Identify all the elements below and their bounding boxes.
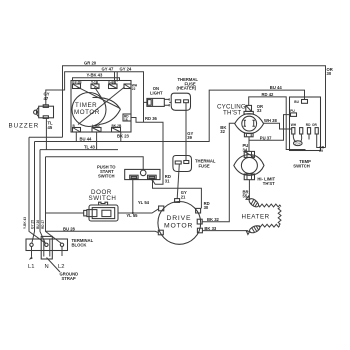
label GY 47	[102, 66, 114, 71]
label Y-BK 43	[87, 73, 103, 78]
label BU 44	[80, 137, 93, 142]
door switch S1	[84, 202, 118, 221]
drive motor M1	[158, 202, 201, 245]
svg-text:RD: RD	[306, 123, 311, 127]
timer terminal T3 top	[108, 81, 117, 89]
wire left riser W3	[40, 150, 45, 244]
svg-text:47: 47	[44, 96, 49, 101]
wire left riser W4	[46, 157, 62, 244]
motor terminal upper-left	[159, 206, 164, 211]
svg-text:BK-2B: BK-2B	[112, 124, 122, 128]
label GY 25 (rotated)	[31, 220, 35, 229]
wire PU 37	[249, 115, 291, 141]
label BU 26 (rotated)	[36, 220, 40, 229]
svg-text:L-BB: L-BB	[92, 124, 100, 128]
svg-text:21: 21	[181, 194, 186, 199]
svg-text:30: 30	[204, 205, 209, 210]
label BK 32	[207, 217, 220, 222]
svg-text:OR: OR	[312, 123, 317, 127]
svg-text:SWITCH: SWITCH	[293, 163, 310, 168]
svg-text:18: 18	[124, 118, 128, 122]
svg-text:30: 30	[327, 71, 332, 76]
label GY 21	[181, 190, 187, 199]
thermal fuse F1 (heater)	[171, 93, 190, 110]
wire temp contact 4 to OR 30	[317, 134, 326, 148]
svg-text:BU 26: BU 26	[36, 220, 40, 229]
label BU 44 (right)	[270, 85, 283, 90]
svg-text:GY 24: GY 24	[120, 66, 132, 71]
svg-text:GR 20: GR 20	[84, 61, 97, 66]
wire left riser W2	[32, 142, 35, 244]
motor terminal top	[175, 199, 180, 203]
label THERMAL FUSE	[195, 159, 216, 169]
svg-text:39: 39	[187, 135, 192, 140]
label PU 37	[260, 136, 272, 141]
temp switch BU terminal	[294, 100, 307, 105]
svg-text:BU 28: BU 28	[63, 227, 76, 232]
motor terminal lower-left	[158, 230, 163, 235]
push to start switch S2	[125, 169, 160, 179]
thermal fuse F2	[173, 156, 192, 172]
svg-text:Y-1B: Y-1B	[91, 81, 99, 85]
temp switch LOW element	[293, 134, 302, 146]
wire BU 44 (timer bottom to temp switch BU)	[35, 90, 305, 150]
timer terminal B1 bottom	[73, 124, 81, 132]
wire TL 43	[40, 149, 118, 151]
wire lamp branch	[143, 102, 145, 122]
wire GY 47 / GY 24 (second top horizontal, to on-light)	[46, 72, 147, 105]
svg-text:BK 33: BK 33	[204, 226, 217, 231]
wire Y-BK 43	[73, 78, 120, 81]
connector heater bottom	[246, 224, 261, 235]
temp switch contact labels	[291, 123, 318, 127]
label WH 38	[264, 118, 277, 123]
svg-text:SWITCH: SWITCH	[89, 195, 117, 202]
wire push right hook	[151, 177, 163, 185]
motor terminal right	[197, 219, 202, 224]
wire GY 21 (fuse to motor top)	[177, 164, 179, 199]
label TL 43	[84, 144, 96, 149]
svg-text:TIMER: TIMER	[75, 102, 97, 109]
label ON LIGHT	[150, 86, 163, 95]
svg-text:RD 27: RD 27	[41, 220, 45, 229]
label WH 22	[132, 84, 138, 92]
wire RD 42	[249, 97, 305, 151]
svg-text:BU 44: BU 44	[270, 85, 283, 90]
svg-text:PU 37: PU 37	[260, 136, 272, 141]
terminal block TB1	[26, 236, 68, 259]
svg-text:G-BB: G-BB	[108, 81, 117, 85]
label BK 23	[117, 134, 130, 139]
wire RD 36 (timer RD terminal to motor cap)	[131, 118, 201, 209]
svg-text:FUSE: FUSE	[199, 164, 210, 169]
temp switch S3 box	[290, 97, 321, 151]
svg-text:GY 25: GY 25	[31, 220, 35, 229]
svg-text:TH'ST: TH'ST	[263, 181, 275, 186]
wire PU 34	[248, 140, 250, 151]
label BK 32 (vertical run)	[220, 125, 226, 134]
svg-text:GY 47: GY 47	[102, 66, 114, 71]
svg-text:MOTOR: MOTOR	[164, 223, 193, 230]
svg-text:HEATER: HEATER	[242, 214, 270, 221]
label GR 20	[84, 61, 97, 66]
svg-text:TH'ST: TH'ST	[223, 110, 241, 117]
svg-text:YL 54: YL 54	[138, 200, 150, 205]
svg-text:(HEATER): (HEATER)	[177, 86, 197, 91]
connector heater top	[246, 195, 260, 208]
svg-text:STRAP: STRAP	[62, 276, 76, 281]
svg-text:RD 42: RD 42	[262, 92, 275, 97]
svg-text:LIGHT: LIGHT	[150, 91, 163, 96]
wire GR 20 (top horizontal to right side)	[63, 66, 326, 148]
svg-text:BK 32: BK 32	[207, 217, 220, 222]
label RD 42	[262, 92, 275, 97]
label YL 54	[138, 200, 150, 205]
wire GY 39 (fuse to lower fuse)	[185, 103, 187, 161]
timer terminal RD 18 (right edge)	[123, 114, 131, 122]
wire door left	[46, 212, 84, 214]
timer terminal B3 bottom	[112, 124, 122, 132]
svg-text:45: 45	[48, 125, 53, 130]
timer U1 box	[71, 81, 131, 133]
timer terminal T4 top	[124, 84, 131, 89]
label RD 31	[165, 174, 171, 183]
label GR 29	[319, 146, 324, 154]
wire BU 28 (block to motor)	[46, 231, 159, 232]
svg-text:32: 32	[220, 129, 225, 134]
svg-text:33: 33	[257, 108, 262, 113]
hi-limit thermostat TH2	[234, 151, 264, 179]
wire YL 55 (door right to motor)	[118, 209, 159, 214]
cycling thermostat TH1	[235, 105, 264, 136]
temp switch contact 1	[292, 128, 295, 134]
wire BK 33 (motor to heater)	[202, 230, 248, 232]
temp switch contact 4	[315, 128, 318, 134]
motor terminal upper-right	[196, 208, 201, 213]
svg-text:WH: WH	[291, 123, 297, 127]
ground strap	[47, 258, 79, 281]
svg-text:Y-BK 43: Y-BK 43	[87, 73, 103, 78]
svg-text:GY-2B: GY-2B	[72, 81, 82, 85]
label BU 28	[63, 227, 76, 232]
svg-text:LOW: LOW	[295, 141, 301, 145]
label GY 39	[187, 131, 193, 140]
wire temp contact 3 stub	[308, 134, 310, 140]
svg-text:WH 38: WH 38	[264, 118, 277, 123]
label PU 34	[243, 143, 249, 152]
svg-text:TL 43: TL 43	[84, 144, 96, 149]
temp switch PU terminal	[290, 109, 296, 116]
svg-text:BLOCK: BLOCK	[72, 243, 87, 248]
node L1	[28, 247, 34, 271]
label TEMP SWITCH	[293, 159, 311, 169]
svg-text:BU: BU	[294, 100, 299, 104]
wire left riser W1	[29, 137, 63, 243]
label BK 33	[204, 226, 217, 231]
label OR 33	[257, 104, 263, 113]
label RD 27 (rotated)	[41, 220, 45, 229]
svg-text:RD 36: RD 36	[145, 116, 158, 121]
wire buzzer bottom TL 45	[45, 118, 47, 149]
label HI-LIMIT TH'ST	[257, 176, 275, 185]
node L2	[58, 247, 64, 271]
label DRIVE MOTOR	[164, 215, 193, 230]
motor terminal lower-right	[197, 228, 202, 233]
wire push/door feed	[46, 157, 144, 170]
label CYCLING TH'ST	[217, 104, 246, 117]
wire YL 54 (push left contact down)	[132, 180, 134, 213]
timer contact diagonals	[77, 87, 125, 125]
wire BK 32 (motor to cycling thermostat)	[202, 123, 235, 221]
timer motor cam	[72, 93, 120, 127]
svg-text:Y-BK 43: Y-BK 43	[23, 217, 27, 229]
label OR 30 (right edge)	[327, 67, 333, 76]
svg-text:31: 31	[165, 178, 170, 183]
label RD 30	[204, 201, 210, 210]
label YL 55	[126, 213, 138, 218]
label Y-BK 43 (rotated)	[23, 217, 27, 229]
svg-text:L1: L1	[28, 264, 34, 270]
svg-text:N: N	[45, 264, 49, 270]
timer terminal B2 bottom	[92, 124, 101, 132]
svg-text:L2: L2	[58, 264, 64, 270]
label RD 36	[145, 116, 158, 121]
on light DS1	[147, 98, 171, 106]
label TIMER MOTOR	[74, 102, 100, 116]
svg-text:SWITCH: SWITCH	[98, 174, 115, 179]
svg-text:BUZZER: BUZZER	[9, 123, 40, 130]
label TERMINAL BLOCK	[72, 238, 94, 248]
label BR 55	[243, 189, 249, 198]
svg-text:BU 44: BU 44	[80, 137, 93, 142]
buzzer BZ1	[34, 105, 54, 119]
wire BR 55	[248, 180, 250, 199]
label DOOR SWITCH	[89, 189, 117, 202]
timer terminal T1 top	[72, 81, 82, 89]
label TL 45	[48, 121, 54, 131]
svg-text:22: 22	[132, 87, 136, 91]
label GY 47 (vertical at buzzer)	[44, 92, 50, 101]
svg-text:YL 55: YL 55	[126, 213, 138, 218]
timer terminal T2 top	[91, 81, 99, 89]
wire WH 38	[264, 123, 292, 129]
label HEATER	[242, 214, 270, 221]
label BUZZER	[9, 123, 40, 130]
svg-text:DRIVE: DRIVE	[167, 215, 192, 222]
label GY 24	[120, 66, 132, 71]
label THERMAL FUSE (HEATER)	[177, 77, 199, 91]
svg-text:29: 29	[319, 149, 323, 153]
temp switch contact 2	[300, 128, 303, 134]
temp switch contact 3	[307, 128, 310, 134]
svg-text:BK 23: BK 23	[117, 134, 130, 139]
heater R1 zigzag	[259, 204, 281, 227]
label PUSH TO START SWITCH	[97, 165, 116, 179]
node N	[45, 264, 49, 270]
